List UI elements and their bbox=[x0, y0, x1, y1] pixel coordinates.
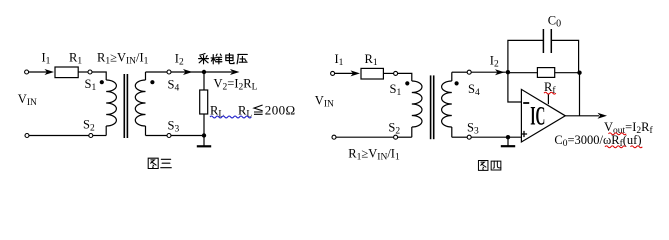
svg-text:200Ω: 200Ω bbox=[265, 102, 296, 117]
svg-text:C0=3000/ωRf(uf): C0=3000/ωRf(uf) bbox=[554, 133, 641, 149]
svg-text:V2=I2RL: V2=I2RL bbox=[214, 76, 258, 92]
svg-text:R1≥VIN/I1: R1≥VIN/I1 bbox=[348, 147, 400, 163]
svg-text:R1≥VIN/I1: R1≥VIN/I1 bbox=[97, 51, 149, 67]
svg-text:IC: IC bbox=[530, 101, 545, 131]
